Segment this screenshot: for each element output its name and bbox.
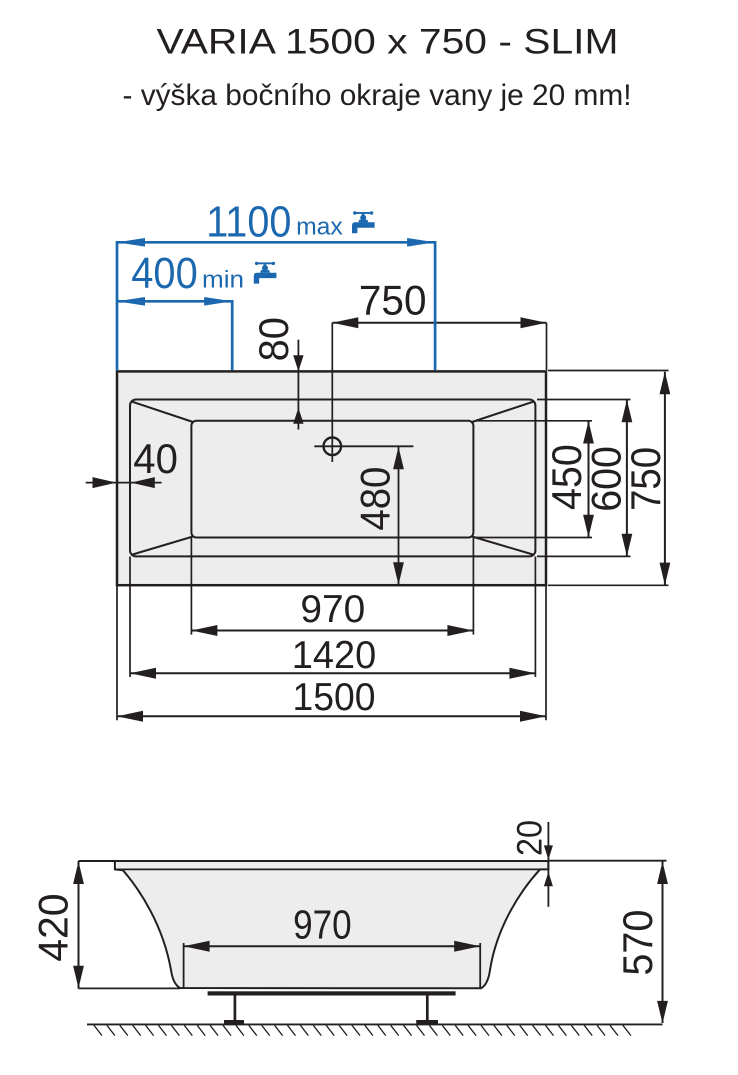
svg-text:420: 420 <box>30 893 77 961</box>
dim 970 side: right extension <box>479 943 481 988</box>
dim 80: upper arrow (points down to tub edge) <box>293 355 303 371</box>
dim 970: right arrow <box>447 625 473 636</box>
dim 1500: left arrow <box>117 711 143 722</box>
blue extension left vertical <box>116 241 119 370</box>
dim 600: top arrow <box>622 400 633 423</box>
side view: left foot leg <box>234 995 237 1021</box>
dim 450: top arrow <box>583 421 594 444</box>
svg-text:min: min <box>202 266 244 293</box>
top view: rim inner rect <box>130 400 535 557</box>
svg-text:570: 570 <box>614 910 661 976</box>
side view: top line full (with left extension to dim 420) <box>79 860 549 862</box>
top view: tub outer rect <box>117 371 546 585</box>
dim 80: lower arrow (points up) <box>293 408 303 424</box>
dim 420: bottom arrow <box>73 966 84 989</box>
side view: right foot plate <box>416 1020 438 1025</box>
svg-text:1500: 1500 <box>293 676 376 719</box>
svg-text:750: 750 <box>622 447 669 511</box>
dim 570: top arrow <box>657 862 668 885</box>
svg-text:480: 480 <box>352 467 399 531</box>
svg-text:max: max <box>296 213 343 240</box>
dim 1100 max: right arrow <box>407 238 435 247</box>
svg-text:VARIA 1500 x 750 - SLIM: VARIA 1500 x 750 - SLIM <box>157 23 619 62</box>
drain crosshair vertical / dim 750 extension <box>331 323 333 462</box>
ext line tub bottom right <box>548 584 669 586</box>
dim 1420: line <box>130 672 535 674</box>
dim 40: left-pointing arrow at rim edge <box>131 477 155 488</box>
ext line tub left bottom <box>116 586 118 720</box>
svg-text:970: 970 <box>293 902 352 948</box>
dim 970 side: line <box>184 945 481 947</box>
ext line rim right bottom <box>534 557 536 678</box>
side view: tub silhouette <box>115 861 548 988</box>
faucet icon (min) <box>254 262 277 284</box>
svg-text:20: 20 <box>510 820 549 856</box>
dim 1420: right arrow <box>509 668 535 679</box>
dim 750 top: line <box>332 322 546 324</box>
dim 40: line <box>86 482 162 484</box>
svg-text:1100: 1100 <box>206 198 291 246</box>
top view: corner diagonal BR <box>472 537 533 555</box>
dim 970 side: left extension <box>183 943 185 988</box>
dim 750 right: line <box>664 372 666 585</box>
dim 600: bottom arrow <box>622 534 633 557</box>
ext line rim bottom right <box>537 555 631 557</box>
svg-text:400: 400 <box>131 250 197 298</box>
dim 750 top: right extension line <box>546 323 548 370</box>
svg-text:80: 80 <box>250 317 297 361</box>
side view: left foot plate <box>224 1020 244 1025</box>
top view: corner diagonal TL <box>133 402 194 422</box>
dim 40: right-pointing arrow at tub edge <box>93 477 117 488</box>
blue extension middle vertical <box>231 300 234 370</box>
dim 750 top: left arrow <box>332 317 358 328</box>
ext line rim top right <box>537 399 631 401</box>
dim 570: bottom arrow <box>657 1001 668 1024</box>
ext line basin left bottom <box>190 538 192 635</box>
dim 420: top arrow <box>73 862 84 885</box>
svg-text:750: 750 <box>359 277 427 324</box>
ext line tub right bottom <box>545 586 547 720</box>
svg-text:40: 40 <box>133 435 178 482</box>
dim 750 right: bottom arrow <box>660 563 671 586</box>
drain crosshair horizontal <box>314 445 413 447</box>
dim 480: top arrow <box>393 447 404 470</box>
side view: right foot leg <box>426 995 429 1021</box>
dim 20: upper arrow (points down) <box>544 845 553 860</box>
svg-text:- výška bočního okraje vany je: - výška bočního okraje vany je 20 mm! <box>123 79 632 112</box>
dim 450: line <box>588 421 590 537</box>
dim 570: line <box>662 861 664 1023</box>
dim 1420: left arrow <box>130 668 156 679</box>
top view: basin rect <box>191 421 473 538</box>
dim 970: line <box>191 630 473 632</box>
ground hatching <box>94 1025 631 1035</box>
dim 80: line <box>297 340 299 430</box>
dim 1500: line <box>117 715 546 717</box>
side view: bottom left extension line <box>79 987 181 989</box>
top view: corner diagonal TR <box>472 402 533 422</box>
dim 750 top: right arrow <box>521 317 547 328</box>
faucet icon (max) <box>352 211 375 233</box>
drain circle <box>324 438 342 456</box>
svg-text:970: 970 <box>300 588 365 631</box>
side view: rim underside line <box>115 868 540 870</box>
dim 400 min: right arrow <box>204 297 232 306</box>
dim 480: bottom arrow <box>393 562 404 585</box>
dim 970: left arrow <box>191 625 217 636</box>
ext line basin bottom right <box>475 537 592 539</box>
dim 480: line <box>398 447 400 585</box>
ext line rim left bottom <box>129 557 131 678</box>
dim 1100 max: left arrow <box>117 238 145 247</box>
dim 1500: right arrow <box>520 711 546 722</box>
dim 600: line <box>626 400 628 557</box>
blue extension right vertical <box>434 241 437 370</box>
dim 400 min: left arrow <box>117 297 145 306</box>
ground line <box>87 1023 663 1025</box>
dim 970 side: left arrow <box>184 941 210 952</box>
dim 20: lower arrow (points up) <box>544 872 553 887</box>
side view: top right extension to dim 570 <box>548 860 666 862</box>
dim 750 right: top arrow <box>660 372 671 395</box>
dim 400 min: line <box>117 300 232 303</box>
dim 420: line <box>78 861 80 989</box>
ext line basin top right <box>475 420 592 422</box>
dim 450: bottom arrow <box>583 515 594 538</box>
top view: corner diagonal BL <box>133 537 194 555</box>
side view: support bar <box>208 991 456 995</box>
ext line basin right bottom <box>472 538 474 635</box>
dim 970 side: right arrow <box>454 941 480 952</box>
ext line tub top right <box>548 370 669 372</box>
svg-text:1420: 1420 <box>292 634 376 677</box>
dim 20: line <box>547 822 549 907</box>
dim 1100 max: line <box>117 241 435 244</box>
